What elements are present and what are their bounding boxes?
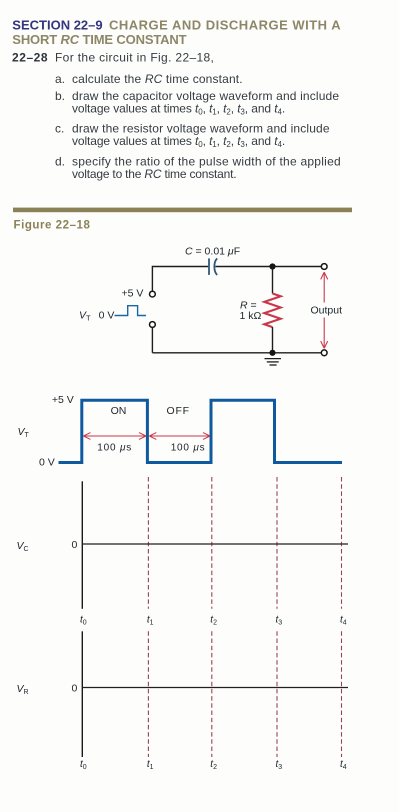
- ON width arrow: [84, 433, 147, 440]
- svg-text:t0: t0: [80, 615, 87, 627]
- time axis t0 (VC, upper segment): [81, 481, 83, 609]
- svg-text:c.: c.: [55, 122, 64, 136]
- waveform VT trace: [59, 400, 343, 462]
- svg-text:voltage values at times t0, t1: voltage values at times t0, t1, t2, t3, …: [72, 134, 285, 149]
- wire resistor bottom lead: [272, 327, 274, 353]
- gridline t2 (VR): [211, 631, 213, 757]
- svg-text:0 V: 0 V: [39, 457, 55, 469]
- figure rule bar: [13, 208, 352, 213]
- time axis t0 (lower segment through VR): [81, 631, 83, 757]
- junction node at top of resistor: [269, 263, 275, 269]
- svg-text:voltage values at times t0, t1: voltage values at times t0, t1, t2, t3, …: [72, 102, 285, 117]
- svg-text:0: 0: [72, 539, 78, 551]
- svg-text:t3: t3: [276, 759, 283, 771]
- gridline t4 (VR): [341, 631, 343, 757]
- wire from source bottom terminal down to bottom wire: [151, 328, 153, 353]
- svg-text:VC: VC: [17, 540, 29, 553]
- svg-text:Output: Output: [311, 304, 343, 316]
- wire resistor top lead: [272, 267, 274, 294]
- svg-text:d.: d.: [55, 155, 65, 169]
- wire from capacitor to output top terminal: [215, 266, 321, 268]
- svg-text:Figure 22–18: Figure 22–18: [14, 220, 91, 232]
- svg-text:t2: t2: [210, 615, 217, 627]
- gridline t4 (VC): [341, 477, 343, 609]
- ground: [265, 359, 282, 365]
- source bottom terminal: [150, 322, 156, 328]
- svg-text:t2: t2: [210, 759, 217, 771]
- resistor R: [264, 294, 280, 328]
- svg-text:CHARGE AND DISCHARGE WITH A: CHARGE AND DISCHARGE WITH A: [109, 18, 341, 33]
- svg-text:t0: t0: [80, 759, 87, 771]
- svg-text:a.: a.: [55, 72, 65, 86]
- output arrow lower segment with arrowhead: [321, 318, 328, 349]
- gridline t1 (VC): [147, 477, 149, 609]
- svg-text:SECTION 22–9: SECTION 22–9: [12, 18, 102, 33]
- svg-text:voltage to the RC time constan: voltage to the RC time constant.: [72, 167, 236, 181]
- svg-text:t3: t3: [276, 615, 283, 627]
- svg-text:C = 0.01 μF: C = 0.01 μF: [185, 246, 240, 258]
- svg-text:1 kΩ: 1 kΩ: [240, 310, 262, 322]
- svg-text:VR: VR: [17, 683, 29, 696]
- svg-text:100 μs: 100 μs: [171, 442, 206, 453]
- gridline t1 (VR): [147, 631, 149, 757]
- output bottom terminal: [321, 350, 327, 356]
- svg-text:+5 V: +5 V: [52, 394, 74, 406]
- capacitor C (left plate): [208, 258, 210, 275]
- svg-text:For the circuit in Fig. 22–18,: For the circuit in Fig. 22–18,: [55, 51, 214, 65]
- svg-text:OFF: OFF: [167, 405, 190, 417]
- capacitor C (right curved plate): [214, 258, 217, 275]
- svg-text:t1: t1: [147, 615, 154, 627]
- svg-text:t4: t4: [340, 615, 347, 627]
- OFF width arrow: [149, 433, 210, 440]
- svg-text:0: 0: [72, 682, 78, 694]
- svg-text:+5 V: +5 V: [122, 288, 144, 300]
- junction node at bottom of resistor: [269, 350, 275, 356]
- svg-text:22–28: 22–28: [12, 51, 48, 65]
- svg-text:calculate the RC time constant: calculate the RC time constant.: [72, 72, 243, 86]
- VC horizontal axis: [82, 543, 348, 545]
- svg-text:VT0 V: VT0 V: [79, 309, 114, 322]
- gridline t2 (VC): [211, 477, 213, 609]
- output arrow upper segment with arrowhead: [321, 272, 328, 302]
- VR horizontal axis: [82, 687, 348, 689]
- source top terminal: [150, 291, 156, 297]
- wire from source top terminal to capacitor: [152, 267, 208, 291]
- svg-text:b.: b.: [55, 89, 65, 103]
- source pulse symbol: [115, 306, 147, 316]
- gridline t3 (VR): [276, 631, 278, 757]
- svg-text:SHORT RC TIME CONSTANT: SHORT RC TIME CONSTANT: [12, 32, 186, 47]
- bottom wire: [152, 352, 321, 354]
- output top terminal: [321, 264, 327, 270]
- gridline t3 (VC): [276, 477, 278, 609]
- svg-text:VT: VT: [18, 426, 30, 439]
- svg-text:100 μs: 100 μs: [97, 442, 132, 453]
- svg-text:t4: t4: [340, 759, 347, 771]
- svg-text:ON: ON: [111, 405, 127, 417]
- svg-text:t1: t1: [147, 759, 154, 771]
